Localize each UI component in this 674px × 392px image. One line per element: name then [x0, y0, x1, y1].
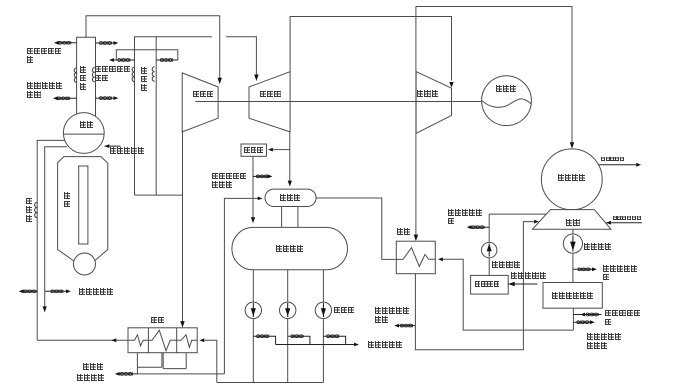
- label main steam sample point line2 点: [27, 56, 34, 63]
- label condensate pump 凝结水泵: [584, 243, 612, 250]
- main steam sample line left: [54, 41, 77, 45]
- label polishing outlet sample line2 取样点: [587, 342, 608, 349]
- HP heater box with three sections: [128, 328, 197, 353]
- reheater right coil: [152, 67, 154, 81]
- IP extraction line down to deaerator: [288, 131, 292, 187]
- feed pump 3: [315, 302, 331, 318]
- label main steam sample point line1 主蒸汽取样: [27, 48, 62, 55]
- superheater left coil: [74, 68, 76, 82]
- feed pump discharge lines to bottom header: [253, 319, 323, 383]
- crossover box IP to LP: [290, 17, 454, 88]
- label boiler makeup water 锅炉补给水: [511, 272, 546, 279]
- turbine shaft: [195, 101, 481, 103]
- main steam line from superheater to HP cylinder: [86, 16, 222, 85]
- reheat steam sample line right with valves: [156, 58, 178, 61]
- HP exhaust / extraction line down to HP heater: [135, 131, 185, 328]
- label LP heater 低加: [397, 228, 411, 235]
- deaerator outlet line to LP heater: [316, 198, 396, 259]
- label feedwater dosing point 给水加药点: [368, 341, 403, 348]
- feed pump 1: [245, 302, 261, 318]
- label makeup pump 凝补水泵: [492, 261, 520, 268]
- drum blowdown line with down arrow: [43, 147, 67, 313]
- label feed pump 给水泵: [334, 307, 355, 314]
- bottom feedwater header: [217, 382, 324, 384]
- label deaerator water sample line2 水取样点: [77, 374, 105, 381]
- deaerator to tank connectors: [282, 207, 298, 228]
- economizer coil: [35, 202, 38, 217]
- label LP cylinder 低压缸: [417, 90, 438, 97]
- label makeup water sample line2 点: [448, 218, 455, 225]
- steam drum: [63, 113, 104, 154]
- label boiler water sample point 炉水取样点: [79, 288, 114, 295]
- branch to air heater: [268, 148, 290, 152]
- feed pump suction lines: [253, 270, 323, 302]
- label condensate dosing line2 点: [605, 319, 612, 326]
- deaerator vessel: [265, 189, 316, 206]
- deaerator storage tank: [232, 227, 348, 269]
- reheat steam sample loop over reheater: [116, 50, 178, 60]
- label air heater 暖风器: [244, 147, 263, 153]
- label makeup tank 凝补水箱: [475, 281, 501, 287]
- hotwell: [533, 210, 612, 230]
- condensate dosing branch: [573, 313, 601, 317]
- label deaerator tank 除氧水箱: [276, 245, 304, 252]
- boiler downcomer / economizer feed line: [37, 140, 65, 340]
- label exhaust device 排汽装置: [558, 174, 586, 181]
- label LP heater drain sample line2 样点: [375, 316, 389, 323]
- steam line over top to exhaust device: [416, 7, 574, 149]
- label saturated steam sample point line2 样点: [27, 91, 41, 98]
- label demin water tiny label: [613, 216, 642, 220]
- furnace inner duct: [79, 166, 88, 244]
- label reheat steam sample point line1 再热蒸汽取: [95, 66, 130, 73]
- label superheater 过热器: [80, 66, 86, 92]
- boiler furnace outline: [58, 157, 108, 262]
- label condensate dosing line1 凝结水加药: [605, 310, 640, 317]
- label air heater drain sample line1 暖风器疏水: [212, 173, 247, 180]
- air heater drain line down to deaerator tank: [251, 156, 255, 223]
- LP cylinder: [416, 72, 451, 134]
- label makeup water sample line1 凝补水取样: [448, 209, 483, 216]
- label air heater drain sample line2 取样点: [212, 181, 233, 188]
- HP heater drain piping: [137, 353, 224, 374]
- feedwater outlet from HP heater to economizer: [37, 338, 128, 342]
- boiler makeup water inlet arrow: [508, 282, 537, 287]
- label hotwell 热井: [566, 219, 580, 226]
- feed pump 3 discharge valve branch: [323, 335, 345, 345]
- feed pump 2 discharge valve branch: [288, 335, 310, 345]
- label IP cylinder 中压缸: [260, 91, 281, 98]
- makeup water sample branch: [467, 225, 490, 229]
- LP inlet / extraction line to LP heater: [414, 7, 418, 242]
- label polishing outlet sample line1 精处理出口: [587, 333, 622, 340]
- label HP heater 高加: [151, 317, 165, 324]
- boiler water sample line right: [45, 289, 71, 293]
- exhaust device makeup outlet arrow: [599, 163, 642, 167]
- superheater right coil: [92, 68, 94, 82]
- deaerator inlet water sample line: [115, 372, 137, 376]
- makeup water tank: [471, 275, 509, 294]
- label deaerator 除氧器: [280, 194, 301, 201]
- label condensate sample line1 凝结水取样: [603, 265, 638, 272]
- boiler water dosing arrow into drum: [105, 144, 121, 148]
- generator: [482, 76, 532, 126]
- superheater vessel: [77, 37, 96, 116]
- saturated steam sample line right: [96, 96, 119, 100]
- reheater vessel: [135, 37, 157, 195]
- boiler bottom drum: [74, 253, 96, 275]
- label LP heater drain sample line1 低加疏水取: [375, 307, 410, 314]
- exhaust device: [541, 149, 602, 210]
- polishing outlet sample branch: [573, 320, 594, 324]
- label exhaust makeup tiny label: [601, 157, 625, 161]
- LP heater feed arrow already above; LP heater box: [396, 241, 435, 274]
- hot reheat line to IP cylinder (gap at crossing): [156, 37, 258, 81]
- HP cylinder: [182, 73, 218, 132]
- condensate pump: [563, 229, 582, 282]
- polishing outlet line down: [572, 308, 574, 330]
- LP heater drain line to hotwell: [415, 220, 539, 350]
- demin water inlet to hotwell: [606, 221, 642, 225]
- label saturated steam sample point line1 饱和蒸汽取: [27, 82, 62, 89]
- saturated steam sample line left: [53, 96, 77, 100]
- label reheat steam sample point line2 样点: [95, 75, 109, 82]
- label condensate polishing 凝结水精处理: [552, 292, 595, 299]
- label boiler water dosing point 炉水加药点: [110, 147, 145, 154]
- reheat steam sample line left with valves and arrow: [109, 58, 134, 62]
- HP heater tube zigzags: [128, 330, 197, 351]
- IP cylinder: [249, 72, 290, 132]
- boiler water sample line left: [19, 289, 37, 293]
- air heater box: [241, 144, 267, 156]
- air heater drain sample branch: [253, 175, 273, 179]
- main steam sample line right: [96, 41, 119, 45]
- reheater left coil: [132, 67, 134, 81]
- feedwater dosing header with arrow: [276, 343, 359, 347]
- label HP cylinder 高压缸: [193, 91, 214, 98]
- condensate line from polishing into LP heater: [438, 257, 573, 330]
- feed pump 1 discharge valve branch: [253, 335, 275, 345]
- label economizer 省煤器: [26, 198, 32, 224]
- label steam drum 汽包: [80, 121, 94, 128]
- label reheater 再热器: [141, 67, 147, 93]
- condensate polishing box: [543, 283, 602, 309]
- condensate sample branch after pump: [573, 267, 597, 271]
- label boiler 锅炉: [64, 192, 70, 209]
- label generator 发电机: [496, 85, 517, 92]
- deaerator feed line from bottom header: [224, 197, 262, 374]
- makeup water pump: [482, 242, 497, 275]
- label deaerator water sample line1 除氧器: [83, 363, 104, 370]
- label condensate sample line2 点: [603, 274, 610, 281]
- makeup pump discharge to exhaust device: [489, 214, 546, 243]
- LP heater drain sample branch: [394, 324, 415, 328]
- feedwater riser to HP heater: [200, 338, 217, 382]
- feed pump 2: [280, 302, 296, 318]
